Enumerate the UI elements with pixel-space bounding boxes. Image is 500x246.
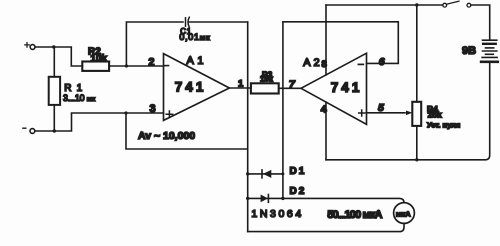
svg-text:1N3064: 1N3064 xyxy=(251,208,303,220)
svg-text:A2: A2 xyxy=(303,57,322,69)
svg-text:D2: D2 xyxy=(290,186,307,197)
node bottom rail R4 junction xyxy=(415,158,418,161)
svg-text:мкА: мкА xyxy=(396,210,411,219)
wire left rail xyxy=(247,22,249,232)
resistor R2 xyxy=(82,62,109,71)
resistor R1 xyxy=(49,77,60,105)
terminal minus input xyxy=(30,129,35,134)
wire plus terminal to R2 xyxy=(35,47,82,66)
wire pin 5 to R4 wiper xyxy=(367,112,406,114)
svg-text:741: 741 xyxy=(331,80,363,95)
capacitor C1 xyxy=(185,18,187,26)
wire bottom rail xyxy=(326,63,490,160)
wire R2 to pin2 xyxy=(109,65,163,67)
svg-text:2: 2 xyxy=(148,56,154,68)
wire pin3 down to rail (Av box) xyxy=(126,113,248,149)
node R1 top junction xyxy=(52,45,55,48)
svg-text:0,01мк: 0,01мк xyxy=(179,32,210,42)
svg-text:10к: 10к xyxy=(260,74,274,83)
meter PA1 xyxy=(394,203,415,224)
svg-text:50...100 мкА: 50...100 мкА xyxy=(327,209,382,221)
node pin3 junction xyxy=(124,111,127,114)
svg-text:3...10 мк: 3...10 мк xyxy=(63,93,96,103)
wire minus terminal to pin3 xyxy=(35,113,164,131)
svg-text:7: 7 xyxy=(289,79,296,91)
wire pin 6 feedback xyxy=(283,22,398,64)
svg-text:6: 6 xyxy=(379,56,385,68)
svg-text:25k: 25k xyxy=(428,110,442,120)
svg-text:3: 3 xyxy=(150,103,156,115)
svg-text:10k: 10k xyxy=(90,53,107,64)
op-amp A1 xyxy=(164,54,230,121)
op-amp A2 xyxy=(301,53,367,124)
svg-text:Av ~ 10,000: Av ~ 10,000 xyxy=(138,130,195,142)
terminal plus input xyxy=(30,45,35,50)
resistor R3 xyxy=(251,83,279,93)
node C1 junction xyxy=(125,64,128,67)
wire A1 output xyxy=(229,87,251,89)
wire pin 8 xyxy=(325,5,327,75)
switch S1 xyxy=(443,3,447,7)
potentiometer R4 xyxy=(412,102,421,126)
wire meter bottom xyxy=(248,223,404,231)
wire pin 4 down xyxy=(325,102,327,160)
svg-text:741: 741 xyxy=(175,80,207,95)
battery B1 9V xyxy=(481,40,498,62)
svg-text:A1: A1 xyxy=(187,55,207,67)
wire D2 to meter xyxy=(283,198,404,202)
svg-text:D1: D1 xyxy=(290,166,307,177)
wire top rail xyxy=(326,4,443,6)
node R1 bottom junction xyxy=(53,129,56,132)
svg-text:Уст. нуля: Уст. нуля xyxy=(427,120,460,129)
wire C1 feedback loop xyxy=(126,22,183,66)
diode D1 xyxy=(248,173,283,175)
svg-text:9В: 9В xyxy=(462,45,476,57)
wire R3 to A2 xyxy=(279,87,301,89)
wire right rail xyxy=(282,22,284,199)
node top rail R4 junction xyxy=(415,3,418,6)
diode D2 xyxy=(248,197,283,199)
